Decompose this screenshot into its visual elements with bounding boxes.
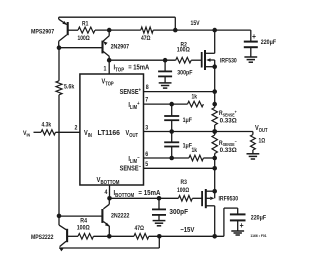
svg-text:100Ω: 100Ω xyxy=(177,187,190,194)
svg-text:1166 • F01: 1166 • F01 xyxy=(250,234,266,238)
ground 220uF top xyxy=(244,57,257,62)
svg-text:+: + xyxy=(252,31,256,41)
resistor R3 100 ohm xyxy=(177,180,192,202)
resistor 47 ohm top xyxy=(141,27,153,42)
resistor R4 100 ohm xyxy=(77,218,94,239)
node VIN xyxy=(23,130,41,137)
resistor RSENSE+ 0.33 ohm xyxy=(212,108,237,126)
svg-text:47Ω: 47Ω xyxy=(141,36,151,43)
svg-text:R1: R1 xyxy=(82,21,88,28)
resistor 5.6k xyxy=(56,81,75,95)
wire VIN to pin2 xyxy=(56,131,80,133)
svg-text:100Ω: 100Ω xyxy=(78,36,91,43)
wire pin4 xyxy=(107,185,112,201)
resistor 47 ohm bottom xyxy=(134,226,149,239)
capacitor 220uF bottom xyxy=(224,208,266,236)
node VOUT xyxy=(255,124,268,132)
transistor Q2 2N2907 xyxy=(59,30,130,60)
transistor M1 IRF530 xyxy=(191,30,237,70)
capacitor 220uF top xyxy=(244,30,277,57)
capacitor 300pF bottom xyxy=(152,198,188,220)
power -15V xyxy=(180,227,195,235)
svg-text:220μF: 220μF xyxy=(251,215,267,222)
capacitor 1uF upper xyxy=(164,104,192,131)
svg-text:IRF530: IRF530 xyxy=(220,58,237,65)
resistor R2 100 ohm xyxy=(176,42,192,63)
svg-text:220μF: 220μF xyxy=(261,39,277,46)
resistor 1 ohm load xyxy=(251,132,266,154)
svg-text:SENSE+: SENSE+ xyxy=(120,87,142,96)
svg-text:−15V: −15V xyxy=(180,227,195,235)
wire IBOTTOM rail xyxy=(110,196,179,201)
svg-text:100Ω: 100Ω xyxy=(77,225,90,232)
svg-text:LT1166: LT1166 xyxy=(98,130,121,137)
wire -15V rail xyxy=(94,234,224,239)
svg-text:300pF: 300pF xyxy=(177,69,193,77)
ground 300pF bottom xyxy=(153,221,166,226)
label figure ref xyxy=(250,234,266,238)
svg-text:R3: R3 xyxy=(181,180,187,187)
resistor RSENSE- 0.33 ohm xyxy=(212,135,237,154)
svg-text:0.33Ω: 0.33Ω xyxy=(220,117,237,124)
wire 1k to column xyxy=(203,154,214,169)
svg-text:+: + xyxy=(240,220,244,230)
wire node A xyxy=(95,28,141,33)
capacitor 300pF top xyxy=(158,60,193,83)
svg-text:MPS2222: MPS2222 xyxy=(31,235,53,242)
label ITOP = 15mA xyxy=(114,64,150,73)
svg-text:1k: 1k xyxy=(192,148,198,155)
resistor R1 100 ohm xyxy=(78,21,96,42)
svg-text:= 15mA: = 15mA xyxy=(138,190,160,197)
wire pin6 ILIM- xyxy=(144,156,218,161)
svg-text:VIN: VIN xyxy=(23,130,30,137)
capacitor 1uF lower xyxy=(164,132,192,159)
wire pin7 ILIM+ xyxy=(144,102,218,107)
transistor M2 IRF9530 xyxy=(192,189,238,236)
pin numbers xyxy=(75,66,150,196)
wire pin8 SENSE+ xyxy=(144,89,218,94)
svg-text:5.6k: 5.6k xyxy=(64,84,75,91)
label IBOTTOM = 15mA xyxy=(114,190,161,199)
resistor 1k bottom xyxy=(189,148,204,161)
transistor Q3 2N2222 xyxy=(59,198,130,236)
svg-text:R4: R4 xyxy=(80,218,87,225)
wire ITOP rail xyxy=(109,58,176,63)
svg-text:IRF9530: IRF9530 xyxy=(219,196,239,203)
svg-text:1μF: 1μF xyxy=(183,118,193,125)
wire pin3 VOUT xyxy=(144,125,253,135)
svg-text:47Ω: 47Ω xyxy=(135,226,145,233)
svg-text:1Ω: 1Ω xyxy=(259,138,266,145)
wire bottom emitter return xyxy=(59,236,159,248)
resistor 4.3k xyxy=(41,122,56,135)
ground 220uF bottom xyxy=(231,231,244,235)
svg-text:MPS2907: MPS2907 xyxy=(31,29,55,36)
svg-text:2N2907: 2N2907 xyxy=(111,44,130,51)
svg-text:0.33Ω: 0.33Ω xyxy=(220,147,237,154)
wire 15V rail xyxy=(153,28,251,33)
ground load xyxy=(247,154,260,159)
wire pin1 xyxy=(107,58,112,74)
wire top emitter rail xyxy=(59,17,176,30)
svg-text:4.3k: 4.3k xyxy=(42,122,52,129)
transistor Q1 MPS2907 xyxy=(31,17,78,48)
svg-text:300pF: 300pF xyxy=(169,209,188,216)
wire source column bottom xyxy=(214,168,216,191)
svg-text:100Ω: 100Ω xyxy=(177,47,190,54)
op-amp U1 LT1166 xyxy=(80,74,144,186)
svg-text:= 15mA: = 15mA xyxy=(128,64,149,72)
svg-text:1k: 1k xyxy=(192,94,198,101)
svg-text:2N2222: 2N2222 xyxy=(111,213,130,220)
wire source column top xyxy=(214,67,216,108)
wire left bias column xyxy=(57,45,62,216)
wire pin5 SENSE- xyxy=(144,166,218,171)
svg-text:SENSE−: SENSE− xyxy=(120,164,142,173)
power +15V xyxy=(191,20,200,27)
resistor 1k top xyxy=(188,94,204,107)
svg-text:15V: 15V xyxy=(191,20,200,27)
transistor Q4 MPS2222 xyxy=(31,214,78,252)
ground 300pF top xyxy=(159,83,172,88)
